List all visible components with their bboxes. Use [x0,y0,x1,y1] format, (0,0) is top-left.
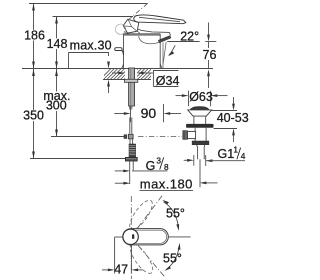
svg-text:8: 8 [164,162,169,172]
svg-text:Ø34: Ø34 [156,74,180,88]
svg-text:3: 3 [156,155,161,165]
svg-text:55°: 55° [166,207,185,221]
svg-text:300: 300 [46,98,67,112]
svg-text:350: 350 [23,109,44,123]
svg-text:4: 4 [241,151,246,161]
svg-text:55°: 55° [163,251,182,265]
svg-text:1: 1 [233,145,238,155]
svg-text:148: 148 [47,37,68,51]
svg-text:186: 186 [24,28,45,42]
svg-text:G1: G1 [218,147,235,161]
svg-text:max.30: max.30 [70,39,112,53]
svg-text:90: 90 [141,105,157,121]
svg-text:Ø63: Ø63 [189,90,213,104]
svg-text:G: G [146,159,156,173]
svg-text:76: 76 [203,48,217,62]
svg-text:max.180: max.180 [140,177,193,192]
svg-text:47: 47 [114,262,128,276]
svg-text:22°: 22° [180,30,199,44]
svg-text:40-53: 40-53 [217,111,249,125]
